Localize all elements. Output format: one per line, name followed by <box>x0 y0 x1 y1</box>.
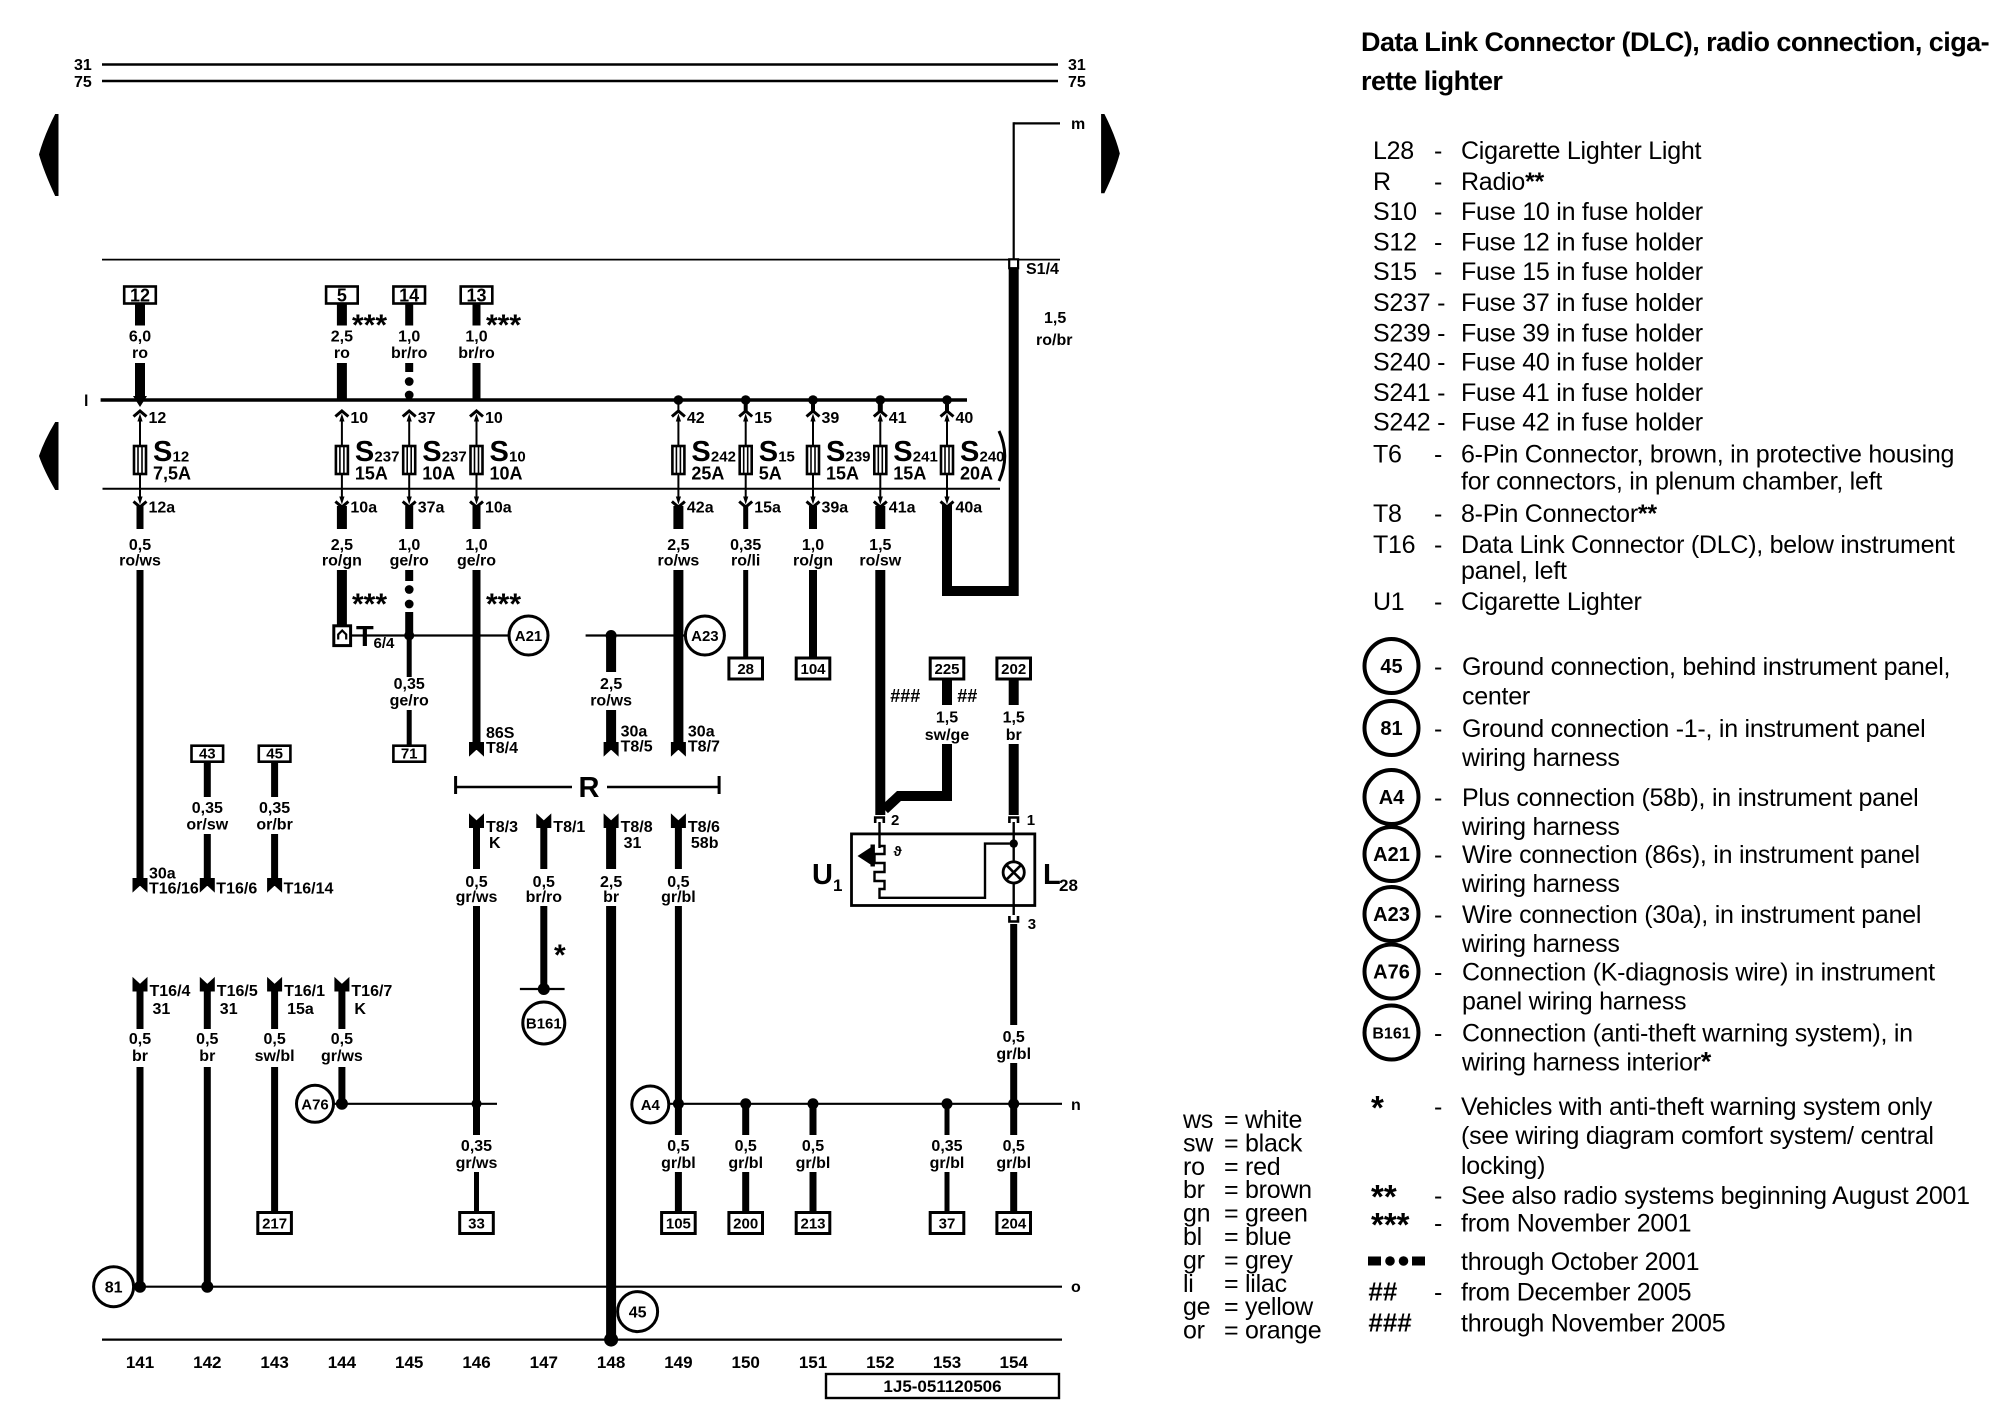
wire 0,5 sw/bl col143 to box 217 <box>255 987 295 1213</box>
fuse S237a pin 10a arrow <box>335 474 377 517</box>
fuse S239 pin 39a arrow <box>807 474 849 517</box>
svg-text:Fuse 39 in fuse holder: Fuse 39 in fuse holder <box>1461 320 1703 348</box>
wire 1,0 ge/ro col145 with version dots <box>390 506 429 636</box>
fuse S241 column: pin 41 arrow <box>874 400 907 446</box>
svg-text:39: 39 <box>822 410 840 427</box>
fuse box terminal 13 <box>461 286 493 306</box>
svg-text:104: 104 <box>800 661 826 678</box>
svg-text:gr/bl: gr/bl <box>996 1155 1031 1172</box>
ground line o <box>134 1279 1081 1296</box>
svg-text:Wire connection (30a), in inst: Wire connection (30a), in instrument pan… <box>1462 901 1921 929</box>
svg-text:T8/1: T8/1 <box>553 819 585 836</box>
connector T8/1 col147 <box>537 815 586 837</box>
wire 1,0 br/ro stub with dots (through Oct 2001) <box>391 304 428 400</box>
svg-text:0,5: 0,5 <box>129 537 151 554</box>
U1 label <box>812 859 842 895</box>
wire 0,35 ro/li col150 <box>730 506 761 658</box>
svg-text:Radio**: Radio** <box>1461 168 1545 196</box>
svg-text:br/ro: br/ro <box>526 889 563 906</box>
wire 2,5 ro/ws branch to T8/5 <box>590 636 653 756</box>
svg-text:Data Link Connector (DLC), bel: Data Link Connector (DLC), below instrum… <box>1461 531 1955 559</box>
separator line below fuses <box>103 488 1001 490</box>
svg-text:Fuse 42 in fuse holder: Fuse 42 in fuse holder <box>1461 409 1703 437</box>
node A21 circle <box>509 616 548 655</box>
terminal box 45 <box>259 746 291 763</box>
page arrow left lower <box>40 423 59 490</box>
svg-text:31: 31 <box>1068 57 1086 74</box>
svg-text:105: 105 <box>666 1216 691 1233</box>
svg-text:A21: A21 <box>515 628 543 645</box>
svg-text:10: 10 <box>350 410 368 427</box>
node A76 connection line <box>334 1098 498 1110</box>
svg-text:10A: 10A <box>490 464 523 484</box>
svg-text:from December 2005: from December 2005 <box>1461 1279 1691 1307</box>
svg-text:151: 151 <box>799 1353 827 1372</box>
wire 0,5 gr/bl col154 to box 204 <box>996 1138 1031 1213</box>
node B161 junction <box>520 983 565 995</box>
svg-text:144: 144 <box>328 1353 357 1372</box>
legend title <box>1361 27 1989 96</box>
svg-text:***: *** <box>352 588 387 621</box>
svg-text:0,5: 0,5 <box>263 1031 285 1048</box>
svg-text:ge/ro: ge/ro <box>390 553 429 570</box>
svg-text:0,5: 0,5 <box>1003 1138 1025 1155</box>
svg-text:***: *** <box>486 588 521 621</box>
part number box <box>826 1374 1059 1398</box>
svg-text:T16/14: T16/14 <box>284 881 334 898</box>
terminal box 217 <box>258 1213 292 1234</box>
svg-text:center: center <box>1462 682 1530 710</box>
svg-text:ro/ws: ro/ws <box>590 693 632 710</box>
svg-text:10A: 10A <box>422 464 455 484</box>
legend note *** <box>1371 1206 1691 1243</box>
bottom rail with ground 45 dot <box>102 1333 1062 1347</box>
terminal box 200 <box>729 1213 763 1234</box>
svg-text:-: - <box>1434 841 1442 869</box>
fuse S10 column: pin 10 arrow <box>470 410 503 446</box>
svg-text:A21: A21 <box>1373 844 1410 866</box>
svg-text:58b: 58b <box>691 835 719 852</box>
svg-text:28: 28 <box>737 661 754 678</box>
fuse S237 15A <box>336 436 400 484</box>
svg-text:gr/bl: gr/bl <box>661 1155 696 1172</box>
fuse S242 25A <box>672 436 736 484</box>
fuse S10 pin 10a arrow <box>470 474 512 517</box>
svg-text:15: 15 <box>754 410 772 427</box>
terminal box 71 <box>393 746 425 763</box>
svg-text:81: 81 <box>1380 718 1402 740</box>
terminal box 105 <box>662 1213 696 1234</box>
svg-text:-: - <box>1434 258 1442 286</box>
svg-text:###: ### <box>1368 1308 1412 1338</box>
svg-text:Ground connection, behind inst: Ground connection, behind instrument pan… <box>1462 653 1950 681</box>
wire 2,5 br col148 to ground <box>600 824 622 1340</box>
svg-text:-: - <box>1434 1182 1442 1210</box>
legend node A76 <box>1365 945 1936 1016</box>
svg-text:wiring harness interior*: wiring harness interior* <box>1461 1047 1712 1077</box>
svg-text:gr/bl: gr/bl <box>661 889 696 906</box>
svg-text:S15: S15 <box>1373 258 1417 286</box>
svg-text:1,5: 1,5 <box>1003 710 1025 727</box>
svg-text:or/sw: or/sw <box>186 817 228 834</box>
svg-text:1: 1 <box>1027 812 1035 829</box>
node A76 circle <box>297 1085 334 1122</box>
svg-text:-: - <box>1434 531 1442 559</box>
svg-text:br: br <box>603 889 619 906</box>
svg-text:0,35: 0,35 <box>394 676 425 693</box>
legend ground 45 <box>1365 639 1951 710</box>
svg-text:225: 225 <box>934 661 959 678</box>
svg-text:0,5: 0,5 <box>196 1031 218 1048</box>
svg-text:43: 43 <box>199 746 216 763</box>
svg-text:-: - <box>1434 1279 1442 1307</box>
svg-text:sw/bl: sw/bl <box>255 1048 295 1065</box>
svg-text:Fuse 41 in fuse holder: Fuse 41 in fuse holder <box>1461 379 1703 407</box>
svg-text:T8: T8 <box>1373 500 1402 528</box>
svg-text:0,5: 0,5 <box>735 1138 757 1155</box>
fuse S239 column: pin 39 arrow <box>807 400 840 446</box>
svg-text:S237 -: S237 - <box>1373 289 1445 317</box>
svg-text:gr/bl: gr/bl <box>728 1155 763 1172</box>
fuse S237a column: pin 10 arrow <box>335 410 368 446</box>
svg-text:T: T <box>356 621 374 653</box>
wire rail 31 <box>74 57 1086 74</box>
svg-text:40: 40 <box>956 410 974 427</box>
svg-text:1,5: 1,5 <box>936 710 958 727</box>
svg-text:6-Pin Connector, brown, in pro: 6-Pin Connector, brown, in protective ho… <box>1461 441 1954 469</box>
svg-text:Fuse 37 in fuse holder: Fuse 37 in fuse holder <box>1461 289 1703 317</box>
node A23 circle <box>685 616 724 655</box>
svg-text:ro/br: ro/br <box>1036 332 1072 349</box>
svg-text:U1: U1 <box>1373 588 1404 616</box>
svg-text:42: 42 <box>687 410 705 427</box>
connector T8/3 K col146 <box>470 815 519 853</box>
fuse S241 15A <box>874 436 938 484</box>
svg-text:-: - <box>1434 500 1442 528</box>
fuse S237 10A <box>403 436 467 484</box>
svg-text:-: - <box>1434 653 1442 681</box>
wire 2,5 ro stub <box>331 304 353 402</box>
svg-text:1,0: 1,0 <box>398 329 420 346</box>
svg-text:37: 37 <box>418 410 436 427</box>
svg-text:1,0: 1,0 <box>465 537 487 554</box>
svg-text:0,35: 0,35 <box>730 537 761 554</box>
svg-text:A23: A23 <box>691 628 719 645</box>
svg-text:T16/4: T16/4 <box>150 983 191 1000</box>
wire 1,5 ro/sw col152 down to U1 pin 2 <box>859 506 901 815</box>
svg-text:-: - <box>1434 784 1442 812</box>
wire 1,5 br from box 202 to L28 pin 1 <box>1003 679 1025 815</box>
wire 0,5 ro/ws col141 <box>119 506 161 886</box>
svg-text:5: 5 <box>337 286 347 306</box>
svg-text:0,35: 0,35 <box>931 1138 962 1155</box>
node m wire <box>1014 116 1086 260</box>
svg-text:37a: 37a <box>418 500 445 517</box>
legend key list <box>1373 137 1955 616</box>
svg-text:0,5: 0,5 <box>802 1138 824 1155</box>
svg-text:br: br <box>1006 727 1022 744</box>
U1 heating element <box>875 844 1010 898</box>
wire 1,5 ro/br from S1/4 down and left to fuse S240 (40a) <box>947 268 1072 591</box>
svg-text:2: 2 <box>891 812 899 829</box>
svg-text:1: 1 <box>833 876 842 895</box>
svg-text:147: 147 <box>530 1353 558 1372</box>
svg-text:40a: 40a <box>956 500 983 517</box>
svg-text:204: 204 <box>1001 1216 1027 1233</box>
svg-text:br: br <box>199 1048 215 1065</box>
radio R bracket <box>456 772 719 804</box>
svg-text:S239 -: S239 - <box>1373 320 1445 348</box>
U1 internal junction dot <box>1010 822 1018 862</box>
terminal box 28 <box>729 658 763 679</box>
svg-text:1,0: 1,0 <box>802 537 824 554</box>
node A4 connection line n <box>669 1097 1081 1114</box>
L28 label <box>1043 859 1078 895</box>
page arrow left top <box>40 115 59 196</box>
svg-text:wiring harness: wiring harness <box>1461 930 1620 958</box>
node A21 connection line <box>351 631 509 641</box>
svg-text:wiring harness: wiring harness <box>1461 870 1620 898</box>
svg-text:orange: orange <box>1245 1317 1321 1345</box>
svg-text:-: - <box>1434 1020 1442 1048</box>
svg-text:39a: 39a <box>822 500 849 517</box>
wire 0,35 gr/bl col153 to box 37 <box>930 1104 965 1213</box>
svg-text:202: 202 <box>1001 661 1026 678</box>
svg-text:6/4: 6/4 <box>374 635 396 652</box>
svg-text:15a: 15a <box>287 1001 314 1018</box>
node A23 connection line <box>586 630 686 641</box>
fuse S242 column: pin 42 arrow <box>672 400 705 446</box>
svg-text:T16/16: T16/16 <box>149 881 199 898</box>
svg-text:Fuse 12 in fuse holder: Fuse 12 in fuse holder <box>1461 229 1703 257</box>
svg-text:Fuse 10 in fuse holder: Fuse 10 in fuse holder <box>1461 198 1703 226</box>
svg-text:-: - <box>1434 441 1442 469</box>
svg-text:B161: B161 <box>526 1016 562 1033</box>
svg-text:locking): locking) <box>1461 1152 1545 1180</box>
svg-text:R: R <box>579 772 600 804</box>
svg-text:200: 200 <box>733 1216 758 1233</box>
legend ground 81 <box>1365 701 1926 772</box>
terminal box 43 <box>192 746 224 763</box>
U1 lighter knob symbol <box>858 822 880 867</box>
connector T16/7 K col144 <box>335 978 393 1018</box>
terminal box 225 <box>930 658 964 679</box>
svg-text:m: m <box>1071 116 1085 133</box>
svg-text:31: 31 <box>74 57 92 74</box>
track numbers <box>126 1353 1029 1372</box>
svg-text:ro/ws: ro/ws <box>658 553 700 570</box>
svg-text:through November 2005: through November 2005 <box>1461 1310 1725 1338</box>
fuse S12 column: pin 12 arrow <box>134 410 167 446</box>
ground 45 circle <box>618 1292 658 1332</box>
svg-text:ro/gn: ro/gn <box>322 553 362 570</box>
svg-text:or/br: or/br <box>256 817 292 834</box>
wire 0,5 gr/ws col146 <box>456 824 498 1135</box>
svg-text:###: ### <box>890 686 920 706</box>
svg-text:6,0: 6,0 <box>129 329 151 346</box>
legend node A4 <box>1365 770 1919 841</box>
svg-text:0,35: 0,35 <box>259 800 290 817</box>
svg-text:142: 142 <box>193 1353 221 1372</box>
svg-text:T8/3: T8/3 <box>486 819 518 836</box>
svg-text:5A: 5A <box>759 464 782 484</box>
svg-text:Ground connection -1-, in inst: Ground connection -1-, in instrument pan… <box>1462 715 1925 743</box>
svg-text:45: 45 <box>266 746 283 763</box>
wire 1,0 ro/gn col151 <box>793 506 833 658</box>
svg-text:45: 45 <box>629 1305 647 1322</box>
svg-text:0,35: 0,35 <box>192 800 223 817</box>
svg-text:41a: 41a <box>889 500 916 517</box>
svg-text:A23: A23 <box>1373 904 1410 926</box>
svg-text:n: n <box>1071 1097 1081 1114</box>
wire 1,5 sw/ge from box 225 to U1 pin 2 <box>885 679 970 810</box>
svg-text:13: 13 <box>466 286 486 306</box>
svg-text:o: o <box>1071 1279 1081 1296</box>
svg-text:213: 213 <box>800 1216 825 1233</box>
svg-text:-: - <box>1434 588 1442 616</box>
svg-text:143: 143 <box>260 1353 288 1372</box>
svg-text:S242 -: S242 - <box>1373 409 1445 437</box>
svg-text:##: ## <box>957 686 977 706</box>
separator line upper <box>102 259 1060 261</box>
svg-text:42a: 42a <box>687 500 714 517</box>
svg-text:A76: A76 <box>301 1096 329 1113</box>
svg-text:20A: 20A <box>960 464 993 484</box>
fuse S241 pin 41a arrow <box>874 474 916 517</box>
svg-text:150: 150 <box>732 1353 760 1372</box>
svg-text:A4: A4 <box>641 1097 661 1114</box>
svg-text:217: 217 <box>262 1216 287 1233</box>
wire 0,5 br col142 to ground line <box>196 987 218 1287</box>
svg-text:-: - <box>1434 137 1442 165</box>
svg-text:S12: S12 <box>1373 229 1417 257</box>
fuse S15 5A <box>740 436 795 484</box>
svg-text:149: 149 <box>664 1353 692 1372</box>
svg-text:31: 31 <box>220 1001 238 1018</box>
svg-text:S10: S10 <box>1373 198 1417 226</box>
svg-text:T8/5: T8/5 <box>621 739 653 756</box>
svg-text:l: l <box>84 393 88 410</box>
svg-text:1,0: 1,0 <box>465 329 487 346</box>
fuse S239 15A <box>807 436 871 484</box>
wire rail 75 <box>74 74 1086 91</box>
wire 2,5 ro/ws col149 <box>658 506 700 750</box>
legend node A21 <box>1365 827 1920 898</box>
svg-text:T16: T16 <box>1373 531 1415 559</box>
svg-text:S1/4: S1/4 <box>1026 261 1059 278</box>
svg-text:15A: 15A <box>826 464 859 484</box>
svg-text:Connection (K-diagnosis wire): Connection (K-diagnosis wire) in instrum… <box>1462 959 1935 987</box>
page arrow right <box>1102 115 1120 193</box>
svg-text:75: 75 <box>1068 74 1086 91</box>
svg-text:ro: ro <box>334 345 350 362</box>
fuse S240 column: pin 40 arrow <box>941 400 974 446</box>
svg-text:71: 71 <box>401 746 418 763</box>
svg-text:153: 153 <box>933 1353 961 1372</box>
svg-text:ro/ws: ro/ws <box>119 553 161 570</box>
svg-text:gr/ws: gr/ws <box>456 889 498 906</box>
svg-text:12: 12 <box>149 410 167 427</box>
svg-text:ge/ro: ge/ro <box>457 553 496 570</box>
svg-text:L28: L28 <box>1373 137 1414 165</box>
svg-text:wiring harness: wiring harness <box>1461 813 1620 841</box>
svg-text:or: or <box>1183 1317 1205 1345</box>
svg-text:gr/bl: gr/bl <box>930 1155 965 1172</box>
svg-text:152: 152 <box>866 1353 894 1372</box>
wire 0,5 br/ro col147 to B161 <box>526 824 563 987</box>
wire 0,5 gr/bl col149 to box 105 <box>661 1138 696 1213</box>
svg-text:T8/7: T8/7 <box>688 739 720 756</box>
svg-text:panel, left: panel, left <box>1461 557 1567 585</box>
svg-text:S241 -: S241 - <box>1373 379 1445 407</box>
connector T8/6 58b col149 <box>671 815 720 853</box>
svg-text:for connectors, in plenum cham: for connectors, in plenum chamber, left <box>1461 468 1882 496</box>
wire 0,5 gr/bl col150 to box 200 <box>728 1104 763 1213</box>
svg-text:148: 148 <box>597 1353 625 1372</box>
svg-text:A76: A76 <box>1373 962 1410 984</box>
wire 2,5 ro/gn col144 <box>322 506 362 626</box>
svg-text:8-Pin Connector**: 8-Pin Connector** <box>1461 500 1657 528</box>
svg-text:*: * <box>1371 1089 1384 1126</box>
svg-text:ge/ro: ge/ro <box>390 693 429 710</box>
svg-text:14: 14 <box>399 286 419 306</box>
legend colour codes <box>1182 1106 1321 1345</box>
node A4 circle <box>632 1086 669 1123</box>
wire 0,5 gr/bl from L28 pin 3 <box>996 924 1031 1135</box>
svg-text:0,5: 0,5 <box>129 1031 151 1048</box>
svg-text:wiring harness: wiring harness <box>1461 744 1620 772</box>
legend node A23 <box>1365 887 1922 958</box>
connector T6/4 <box>334 621 395 653</box>
fuse S237b column: pin 37 arrow <box>403 410 436 446</box>
svg-text:12a: 12a <box>149 500 176 517</box>
svg-text:ϑ: ϑ <box>894 843 903 859</box>
ground 81 circle <box>94 1267 134 1307</box>
fuse S237b pin 37a arrow <box>403 474 445 517</box>
svg-text:panel wiring harness: panel wiring harness <box>1462 988 1686 1016</box>
fuse S242 pin 42a arrow <box>672 474 714 517</box>
wire 0,35 or/br col143 <box>256 762 333 898</box>
svg-text:***: *** <box>486 309 521 342</box>
U1 cigarette lighter box <box>852 834 1035 906</box>
fuse S12 pin 12a arrow <box>134 474 176 517</box>
svg-text:1J5-051120506: 1J5-051120506 <box>883 1377 1001 1396</box>
svg-text:br/ro: br/ro <box>458 345 495 362</box>
svg-text:Data Link Connector (DLC), rad: Data Link Connector (DLC), radio connect… <box>1361 27 1989 57</box>
wire 0,5 gr/ws col144 to A76 <box>321 987 363 1104</box>
svg-text:2,5: 2,5 <box>331 329 353 346</box>
svg-text:25A: 25A <box>691 464 724 484</box>
svg-text:-: - <box>1434 229 1442 257</box>
svg-text:K: K <box>354 1001 366 1018</box>
svg-text:gr/ws: gr/ws <box>456 1155 498 1172</box>
svg-text:gr/ws: gr/ws <box>321 1048 363 1065</box>
terminal S1/4 <box>1009 259 1059 278</box>
svg-text:154: 154 <box>1000 1353 1029 1372</box>
wire 0,35 or/sw col142 <box>186 762 257 898</box>
legend note * <box>1371 1089 1934 1180</box>
fuse S15 column: pin 15 arrow <box>739 400 772 446</box>
svg-text:0,35: 0,35 <box>461 1138 492 1155</box>
svg-text:-: - <box>1434 198 1442 226</box>
svg-text:*: * <box>554 939 566 972</box>
connector 86S T8/4 end of col146 <box>470 725 519 757</box>
fuse S15 pin 15a arrow <box>739 474 781 517</box>
svg-text:T8/8: T8/8 <box>621 819 653 836</box>
svg-text:15a: 15a <box>754 500 781 517</box>
svg-text:T6: T6 <box>1373 441 1402 469</box>
svg-text:rette lighter: rette lighter <box>1361 66 1503 96</box>
